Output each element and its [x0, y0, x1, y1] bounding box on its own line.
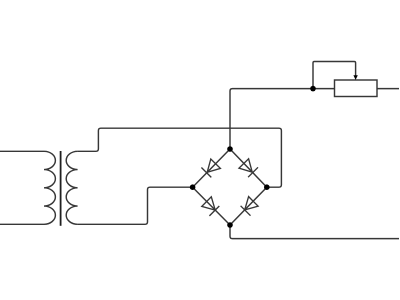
wire: bridge diamond edge top-right — [230, 149, 267, 187]
node: bridge bottom junction dot — [227, 222, 233, 228]
transformer T1 core — [60, 151, 62, 226]
wire: secondary top lead to bridge right node — [78, 128, 282, 187]
transformer T1 secondary winding — [66, 151, 77, 224]
diode D2 (top-right, cathode toward right node) — [239, 159, 258, 177]
potentiometer R1 wiper arrowhead — [353, 75, 357, 80]
node: potentiometer wiper junction dot — [310, 86, 316, 92]
diode D1 (top-left, cathode toward left node) — [201, 159, 220, 177]
wire: potentiometer output to right edge — [377, 88, 399, 90]
potentiometer R1 body — [335, 80, 378, 97]
wire: primary top lead — [0, 150, 44, 152]
wire: primary bottom lead — [0, 223, 44, 225]
wire: secondary bottom lead to bridge left node — [78, 187, 193, 224]
wire: bridge bottom node to output — [230, 225, 399, 239]
diode D4 (bottom-right, cathode toward bottom node) — [241, 197, 259, 216]
diode D3 (bottom-left, cathode toward bottom node) — [202, 197, 220, 216]
wire: bridge diamond edge bottom-right — [230, 187, 267, 225]
node: bridge right junction dot — [264, 184, 270, 190]
wire: bridge diamond edge bottom-left — [193, 187, 230, 225]
transformer T1 primary winding — [44, 151, 55, 224]
potentiometer R1 wiper wire — [313, 62, 356, 89]
wire: bridge diamond edge top-left — [193, 149, 230, 187]
node: bridge left junction dot — [190, 184, 196, 190]
node: bridge top junction dot — [227, 146, 233, 152]
wire: bridge top node to potentiometer input — [230, 89, 335, 149]
